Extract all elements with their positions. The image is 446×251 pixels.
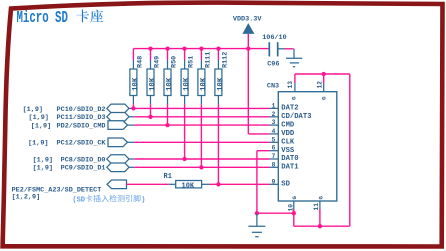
svg-text:10K: 10K [182, 182, 195, 190]
wire VSS pin6 to ground [257, 151, 270, 214]
svg-text:8: 8 [272, 161, 276, 168]
svg-text:DAT0: DAT0 [281, 155, 298, 163]
svg-text:R1: R1 [164, 173, 172, 181]
svg-text:R50: R50 [171, 56, 179, 68]
connector CN3 body [267, 83, 337, 201]
wire row PC11/SDIO_D3 [129, 116, 270, 118]
port symbol PC11/SDIO_D3 [107, 113, 129, 122]
junction dot pin11 [318, 224, 322, 228]
resistor R51 10K pull-up [181, 56, 196, 105]
resistor R1 10K series [164, 173, 210, 190]
port symbol PC9/SDIO_D1 [107, 163, 129, 172]
svg-text:PC9/SDIO_D1: PC9/SDIO_D1 [61, 165, 106, 173]
junction dot node SD [216, 182, 220, 186]
svg-text:10K: 10K [132, 77, 140, 91]
pin 10 G [287, 196, 298, 214]
svg-text:PC10/SDIO_D2: PC10/SDIO_D2 [57, 106, 106, 114]
sheet-entry label PD2/SDIO_CMD [31, 123, 106, 131]
svg-text:PC8/SDIO_D0: PC8/SDIO_D0 [61, 156, 106, 164]
svg-text:VSS: VSS [281, 147, 295, 155]
pin 2 CD/DAT3 [270, 111, 312, 121]
svg-text:13: 13 [287, 81, 294, 89]
svg-text:G: G [291, 196, 298, 200]
resistor R48 10K pull-up [130, 56, 145, 105]
resistor R50 10K pull-up [164, 56, 179, 105]
sheet-entry label PC12/SDIO_CK [28, 140, 106, 148]
wire R1 to pin 9 SD [210, 183, 270, 185]
wire pull-up top rail [133, 48, 269, 50]
svg-text:CN3: CN3 [267, 83, 279, 91]
svg-text:G: G [291, 96, 298, 100]
junction dot node SDIO_CMD [165, 123, 169, 127]
port symbol PC8/SDIO_D0 [107, 155, 129, 164]
junction dot node SDIO_D2 [131, 106, 135, 110]
port symbol PC12/SDIO_CK [108, 138, 128, 147]
pin 5 CLK [270, 136, 295, 146]
junction dot pin10 [292, 211, 296, 215]
svg-text:PC11/SDIO_D3: PC11/SDIO_D3 [57, 114, 106, 122]
wire from rail through R50 to row [167, 49, 169, 126]
pin 13 G [287, 74, 298, 100]
wire row PC9/SDIO_D1 [129, 166, 270, 168]
wire VDD net to pin 4 [248, 49, 269, 134]
schematic title Micro SD [17, 8, 104, 27]
svg-text:4: 4 [272, 128, 276, 135]
svg-text:10K: 10K [200, 77, 208, 91]
svg-text:7: 7 [272, 153, 276, 160]
svg-text:6: 6 [272, 145, 276, 152]
svg-text:[1,9]: [1,9] [33, 156, 53, 164]
sheet-entry label PC9/SDIO_D1 [33, 165, 106, 173]
svg-text:10K: 10K [217, 77, 225, 91]
wire ground loop right side [295, 74, 350, 226]
svg-text:[1,9]: [1,9] [33, 165, 53, 173]
junction dot node SDIO_D3 [148, 115, 152, 119]
svg-text:3: 3 [272, 119, 276, 126]
svg-text:R112: R112 [222, 52, 230, 68]
svg-text:G: G [317, 196, 324, 200]
power symbol VDD3.3V [233, 16, 262, 49]
junction dot node SDIO_D1 [199, 165, 203, 169]
wire row PC10/SDIO_D2 [129, 107, 270, 109]
ground symbol top-right [286, 49, 302, 67]
svg-text:5: 5 [272, 136, 276, 143]
svg-text:10K: 10K [166, 77, 174, 91]
svg-text:DAT2: DAT2 [281, 105, 298, 113]
pin 8 DAT1 [270, 161, 300, 171]
svg-text:PD2/SDIO_CMD: PD2/SDIO_CMD [57, 123, 106, 131]
svg-text:[1,2,9]: [1,2,9] [12, 193, 41, 201]
wire SD_DETECT to R1 [127, 183, 176, 185]
pin 4 VDD [270, 128, 295, 138]
wire row PC12/SDIO_CK [128, 141, 270, 143]
pin 9 SD [270, 178, 291, 188]
svg-text:(SD: (SD [72, 196, 85, 204]
wire from rail through R111 to row [200, 49, 202, 168]
pin 6 VSS [270, 145, 295, 155]
pin 11 G [313, 196, 324, 227]
wire from rail through R49 to row [150, 49, 152, 117]
svg-text:2: 2 [272, 111, 276, 118]
svg-text:R51: R51 [188, 56, 196, 68]
wire ground rail to pin 10 [257, 212, 294, 214]
svg-text:[1,9]: [1,9] [28, 140, 48, 148]
svg-text:DAT1: DAT1 [281, 164, 299, 172]
wire row PD2/SDIO_CMD [128, 124, 270, 126]
svg-text:10K: 10K [149, 77, 157, 91]
wire from rail through R112 to row [217, 49, 219, 185]
svg-text:12: 12 [317, 81, 324, 89]
svg-text:C96: C96 [267, 61, 279, 69]
svg-text:PC12/SDIO_CK: PC12/SDIO_CK [57, 140, 107, 148]
svg-text:R48: R48 [137, 56, 145, 68]
pin 3 CMD [270, 119, 295, 129]
pin 7 DAT0 [270, 153, 299, 163]
svg-text:[1,9]: [1,9] [28, 114, 48, 122]
sheet-entry label PC10/SDIO_D2 [23, 106, 106, 114]
svg-text:VDD: VDD [281, 130, 295, 138]
wire pin10 down and right [294, 213, 320, 226]
svg-text:9: 9 [272, 178, 276, 185]
junction dots on top rail [148, 46, 250, 50]
svg-text:Micro SD: Micro SD [17, 8, 68, 27]
port symbol SD_DETECT [107, 180, 127, 189]
svg-text:VDD3.3V: VDD3.3V [233, 16, 262, 24]
capacitor C96 106/10 [262, 34, 286, 69]
svg-text:1: 1 [272, 102, 276, 109]
svg-text:10K: 10K [183, 77, 191, 91]
wire from rail through R51 to row [184, 49, 186, 159]
junction dot node SDIO_D0 [182, 157, 186, 161]
resistor R112 10K pull-up [215, 52, 230, 105]
wire from rail through R48 to row [132, 49, 134, 109]
pin 1 DAT2 [270, 102, 299, 112]
svg-text:CMD: CMD [281, 121, 295, 129]
resistor R111 10K pull-up [198, 52, 213, 105]
wire cap to ground [279, 48, 294, 50]
port symbol PC10/SDIO_D2 [107, 104, 129, 113]
svg-text:G: G [320, 96, 327, 100]
sheet-entry label PE2/FSMC_A23/SD_DETECT [12, 186, 102, 201]
svg-text:106/10: 106/10 [262, 34, 286, 42]
svg-text:10: 10 [287, 204, 294, 212]
sheet-entry label PC8/SDIO_D0 [33, 156, 106, 164]
port symbol PD2/SDIO_CMD [108, 121, 128, 130]
svg-text:R111: R111 [205, 52, 213, 68]
junction dot pin12 [322, 72, 326, 76]
svg-text:CLK: CLK [281, 139, 295, 147]
svg-text:CD/DAT3: CD/DAT3 [281, 113, 311, 121]
junction dot VSS ground [255, 211, 259, 215]
svg-text:R49: R49 [154, 56, 162, 68]
resistor R49 10K pull-up [147, 56, 162, 105]
sheet-entry label PC11/SDIO_D3 [28, 114, 105, 122]
svg-text:[1,9]: [1,9] [31, 123, 51, 131]
wire row PC8/SDIO_D0 [129, 158, 270, 160]
svg-text:11: 11 [313, 203, 320, 211]
svg-text:[1,9]: [1,9] [23, 106, 43, 114]
note text SD card detect pin [72, 195, 145, 205]
svg-text:): ) [141, 196, 145, 204]
pin 12 G [317, 74, 328, 100]
ground symbol lower-left [248, 213, 265, 237]
svg-text:SD: SD [281, 181, 290, 189]
